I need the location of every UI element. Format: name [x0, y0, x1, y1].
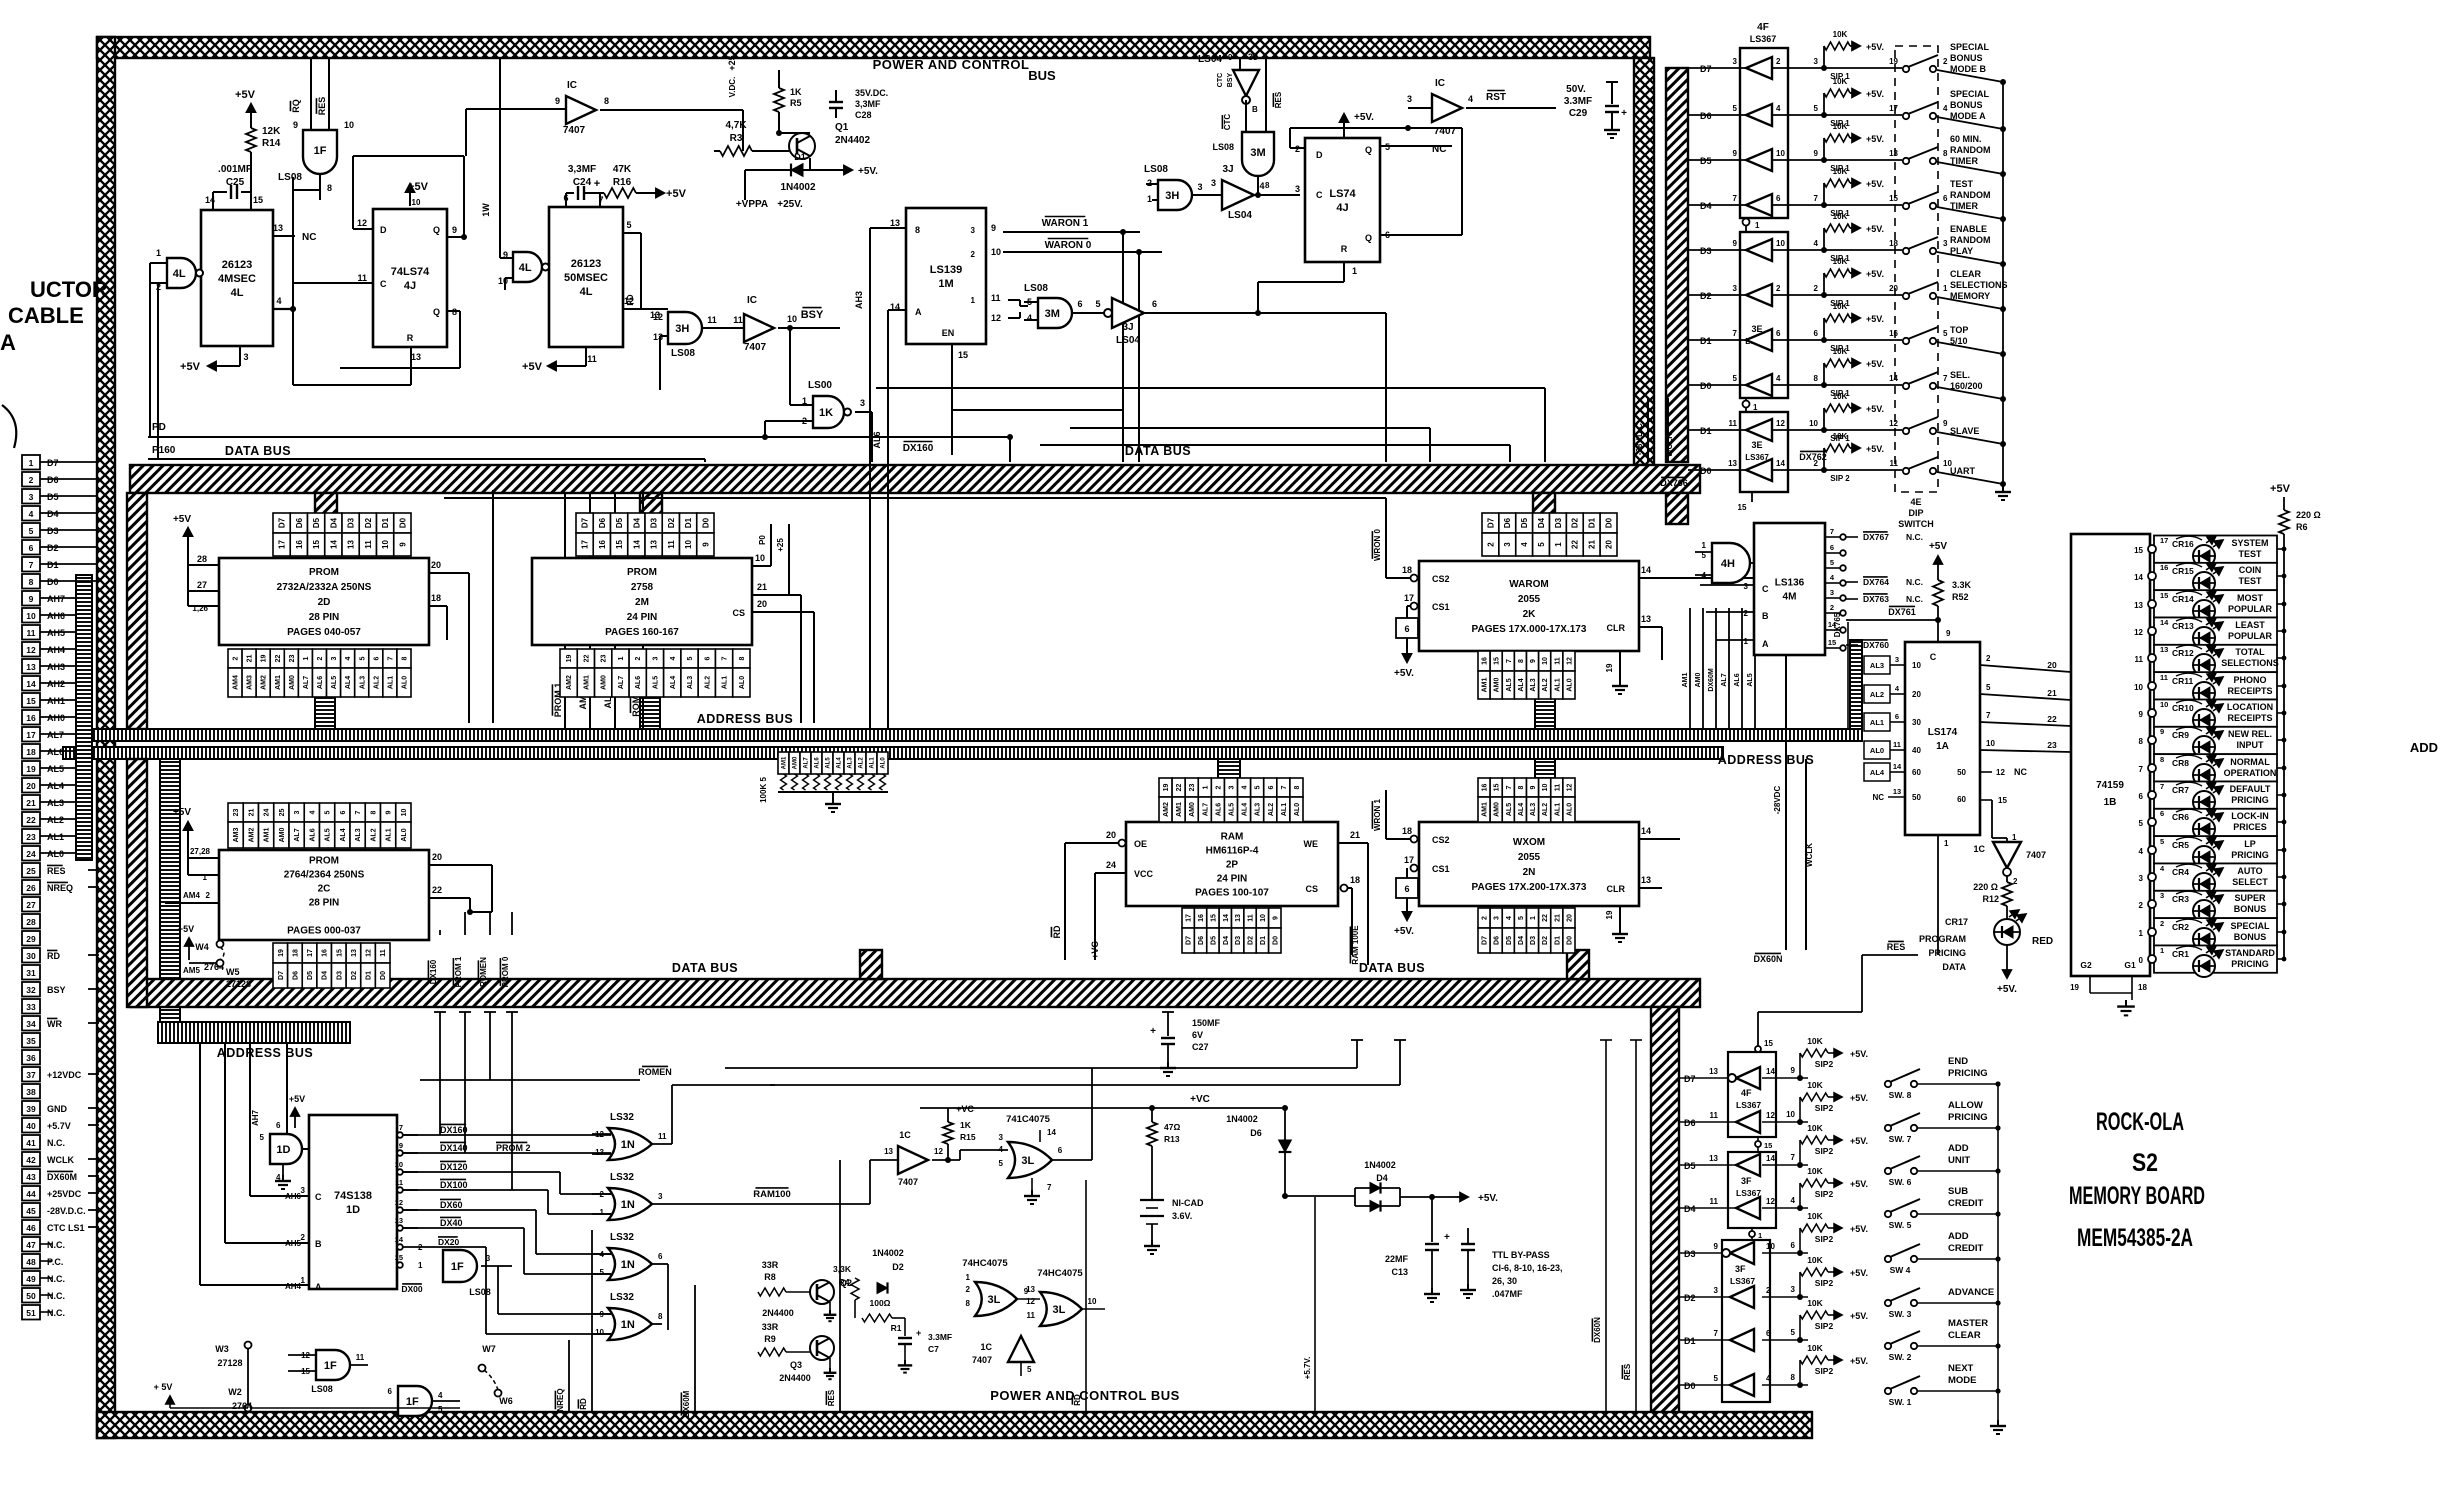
svg-text:4,7K: 4,7K: [725, 120, 747, 131]
svg-text:LS04: LS04: [1228, 210, 1252, 221]
svg-text:SYSTEM: SYSTEM: [2231, 538, 2268, 548]
svg-text:7: 7: [1047, 1183, 1052, 1192]
svg-text:11: 11: [1710, 1111, 1719, 1120]
svg-text:1W: 1W: [481, 203, 491, 217]
svg-text:RD: RD: [579, 1398, 588, 1410]
svg-text:DX767: DX767: [1863, 532, 1889, 542]
svg-text:CR15: CR15: [2172, 566, 2194, 576]
svg-text:SWITCH: SWITCH: [1898, 519, 1934, 529]
svg-text:PRICING: PRICING: [2231, 850, 2269, 860]
svg-text:7: 7: [2139, 765, 2144, 774]
svg-text:45: 45: [26, 1206, 36, 1216]
svg-text:13: 13: [2160, 645, 2168, 654]
svg-text:+25: +25: [727, 55, 737, 70]
svg-text:1: 1: [1702, 541, 1707, 550]
svg-text:9: 9: [1714, 1242, 1719, 1251]
svg-text:3: 3: [301, 1186, 306, 1195]
svg-text:12: 12: [1566, 784, 1573, 792]
svg-text:-28V.D.C.: -28V.D.C.: [47, 1206, 86, 1216]
svg-text:44: 44: [26, 1189, 36, 1199]
svg-text:74159: 74159: [2096, 780, 2124, 791]
svg-text:7407: 7407: [2026, 850, 2046, 860]
svg-text:TEST: TEST: [1950, 179, 1974, 189]
svg-text:+ 5V: + 5V: [154, 1382, 173, 1392]
svg-text:14: 14: [1641, 826, 1651, 836]
svg-text:UART: UART: [1950, 466, 1975, 476]
svg-text:1N: 1N: [621, 1199, 635, 1211]
svg-text:21: 21: [26, 798, 36, 808]
svg-text:8: 8: [915, 225, 920, 235]
svg-text:D4: D4: [47, 509, 59, 519]
svg-text:50: 50: [1912, 793, 1921, 802]
svg-text:RANDOM: RANDOM: [1950, 190, 1991, 200]
svg-text:3J: 3J: [1222, 164, 1233, 175]
svg-text:AH0: AH0: [47, 713, 65, 723]
svg-text:RAM: RAM: [1221, 832, 1244, 843]
svg-text:5: 5: [1986, 683, 1991, 692]
svg-text:D2: D2: [1571, 517, 1580, 528]
svg-text:18: 18: [292, 949, 299, 957]
svg-text:LS32: LS32: [610, 1112, 634, 1123]
svg-text:10K: 10K: [1807, 1255, 1823, 1265]
svg-text:CLEAR: CLEAR: [1948, 1330, 1981, 1341]
svg-text:D2: D2: [1248, 936, 1255, 945]
svg-text:BSY: BSY: [47, 985, 66, 995]
svg-text:DX60: DX60: [440, 1200, 463, 1210]
svg-text:V.DC.: V.DC.: [728, 77, 737, 98]
svg-text:WRON 0: WRON 0: [1373, 528, 1382, 561]
svg-text:19: 19: [2070, 983, 2079, 992]
svg-text:D2: D2: [1542, 936, 1549, 945]
svg-text:3F: 3F: [1735, 1264, 1746, 1274]
svg-text:3M: 3M: [1250, 147, 1265, 159]
svg-text:2758: 2758: [631, 582, 654, 593]
svg-text:2: 2: [1943, 57, 1948, 66]
svg-text:6: 6: [1943, 194, 1948, 203]
svg-text:48: 48: [26, 1257, 36, 1267]
svg-text:17: 17: [581, 540, 590, 549]
svg-text:100K 5: 100K 5: [759, 777, 768, 803]
svg-text:22: 22: [275, 655, 282, 663]
svg-text:3: 3: [29, 492, 34, 502]
svg-text:10K: 10K: [1807, 1123, 1823, 1133]
svg-text:46: 46: [26, 1223, 36, 1233]
svg-text:22: 22: [1571, 540, 1580, 549]
svg-text:WRON 1: WRON 1: [1373, 798, 1382, 831]
svg-text:3,3MF: 3,3MF: [855, 99, 881, 109]
svg-text:PRICING: PRICING: [1928, 948, 1966, 958]
svg-text:7: 7: [1814, 194, 1819, 203]
svg-text:AH3: AH3: [854, 291, 864, 309]
svg-text:DEFAULT: DEFAULT: [2230, 784, 2271, 794]
svg-text:1: 1: [1758, 1231, 1762, 1240]
svg-text:+5V.: +5V.: [1850, 1356, 1868, 1366]
svg-text:14: 14: [1889, 374, 1898, 383]
svg-text:SIP2: SIP2: [1815, 1189, 1834, 1199]
svg-text:SW. 5: SW. 5: [1889, 1220, 1912, 1230]
svg-text:16: 16: [1482, 657, 1489, 665]
svg-text:15: 15: [1210, 914, 1217, 922]
svg-text:3J: 3J: [1248, 52, 1258, 62]
svg-text:9: 9: [29, 594, 34, 604]
svg-text:1: 1: [1147, 194, 1152, 204]
svg-text:AM2: AM2: [1163, 802, 1170, 817]
svg-text:11: 11: [1729, 419, 1738, 428]
svg-text:3: 3: [860, 398, 865, 408]
svg-text:PROM: PROM: [627, 567, 657, 578]
svg-text:CLR: CLR: [1607, 884, 1626, 894]
svg-text:10: 10: [1088, 1297, 1097, 1306]
svg-text:4: 4: [1814, 239, 1819, 248]
svg-text:AH2: AH2: [47, 679, 65, 689]
svg-text:9: 9: [1228, 53, 1233, 62]
svg-text:8: 8: [1294, 785, 1301, 789]
svg-text:1: 1: [1352, 266, 1357, 276]
svg-text:AL0: AL0: [739, 676, 746, 689]
svg-text:D1: D1: [366, 971, 373, 980]
svg-text:13: 13: [884, 1147, 893, 1156]
svg-text:C: C: [380, 279, 387, 289]
svg-text:6: 6: [2139, 792, 2144, 801]
svg-text:29: 29: [26, 934, 36, 944]
svg-text:CTC LS1: CTC LS1: [47, 1223, 85, 1233]
svg-text:RED: RED: [2032, 936, 2053, 947]
svg-text:10: 10: [1542, 657, 1549, 665]
svg-text:BSY: BSY: [1227, 72, 1234, 87]
svg-text:74S138: 74S138: [334, 1190, 372, 1202]
svg-text:AL1: AL1: [1281, 803, 1288, 816]
svg-text:AL6: AL6: [47, 747, 64, 757]
svg-text:14: 14: [1047, 1128, 1056, 1137]
svg-text:AL4: AL4: [340, 828, 347, 841]
svg-text:LS08: LS08: [278, 172, 302, 183]
svg-text:14: 14: [395, 1235, 404, 1244]
svg-text:5: 5: [1537, 542, 1546, 547]
svg-text:D: D: [1316, 150, 1323, 160]
svg-text:3E: 3E: [1751, 440, 1762, 450]
svg-text:4: 4: [345, 656, 352, 660]
svg-text:7407: 7407: [1434, 126, 1457, 137]
svg-text:TOTAL: TOTAL: [2235, 647, 2265, 657]
svg-text:14: 14: [1893, 762, 1902, 771]
svg-text:AL4: AL4: [670, 676, 677, 689]
svg-text:42: 42: [26, 1155, 36, 1165]
svg-text:15: 15: [336, 949, 343, 957]
svg-text:A: A: [315, 1282, 322, 1292]
svg-text:3: 3: [1211, 178, 1216, 188]
svg-text:24: 24: [26, 849, 36, 859]
svg-text:4: 4: [1776, 104, 1781, 113]
svg-text:8: 8: [2139, 737, 2144, 746]
svg-text:10: 10: [401, 809, 408, 817]
svg-text:+5V.: +5V.: [1866, 444, 1884, 454]
svg-text:22: 22: [26, 815, 36, 825]
svg-text:10K: 10K: [1807, 1166, 1823, 1176]
svg-text:C: C: [1316, 190, 1323, 200]
svg-text:SELECT: SELECT: [2232, 877, 2268, 887]
svg-text:DX762: DX762: [1799, 452, 1827, 462]
svg-text:12: 12: [1776, 419, 1785, 428]
svg-text:D1: D1: [1700, 426, 1712, 436]
svg-text:LS08: LS08: [671, 348, 695, 359]
svg-text:1: 1: [1943, 284, 1948, 293]
svg-text:14: 14: [1766, 1154, 1775, 1163]
svg-text:NREQ: NREQ: [47, 883, 73, 893]
svg-text:LS04: LS04: [1116, 335, 1140, 346]
svg-text:6: 6: [1268, 785, 1275, 789]
svg-text:AL2: AL2: [47, 815, 64, 825]
svg-text:ENABLE: ENABLE: [1950, 224, 1987, 234]
svg-text:D1: D1: [1700, 336, 1712, 346]
svg-text:5: 5: [1943, 329, 1948, 338]
svg-text:AL4: AL4: [1518, 678, 1525, 691]
svg-text:1: 1: [2139, 929, 2144, 938]
svg-text:D3: D3: [1530, 936, 1537, 945]
svg-text:12: 12: [366, 949, 373, 957]
svg-text:2: 2: [971, 250, 976, 259]
svg-text:9: 9: [701, 542, 710, 547]
svg-text:D0: D0: [1700, 381, 1712, 391]
svg-text:GND: GND: [47, 1104, 68, 1114]
svg-text:11: 11: [991, 293, 1001, 303]
svg-text:RAM 100E: RAM 100E: [1351, 925, 1360, 965]
svg-text:CR2: CR2: [2172, 922, 2189, 932]
svg-text:AL6: AL6: [635, 676, 642, 689]
svg-text:AL6: AL6: [317, 676, 324, 689]
svg-text:R13: R13: [1164, 1134, 1180, 1144]
svg-text:MODE: MODE: [1948, 1375, 1977, 1386]
svg-text:SW. 2: SW. 2: [1889, 1352, 1912, 1362]
svg-text:CREDIT: CREDIT: [1948, 1198, 1984, 1209]
svg-text:10: 10: [395, 1160, 403, 1169]
svg-text:15: 15: [1494, 657, 1501, 665]
svg-text:NREQ: NREQ: [556, 1388, 565, 1411]
svg-text:+5V: +5V: [235, 89, 256, 101]
svg-text:8: 8: [739, 656, 746, 660]
svg-text:AM0: AM0: [279, 828, 286, 843]
svg-text:2: 2: [206, 891, 211, 900]
svg-text:AL6: AL6: [872, 431, 882, 448]
svg-text:BONUS: BONUS: [2234, 904, 2267, 914]
svg-text:12: 12: [395, 1198, 403, 1207]
svg-text:11: 11: [667, 540, 676, 549]
svg-text:D4: D4: [1518, 936, 1525, 945]
svg-text:15: 15: [1764, 1141, 1772, 1150]
svg-text:AM2: AM2: [248, 828, 255, 843]
svg-text:36: 36: [26, 1053, 36, 1063]
svg-text:74HC4075: 74HC4075: [962, 1258, 1008, 1269]
svg-text:1N4002: 1N4002: [780, 182, 815, 193]
svg-text:C29: C29: [1569, 108, 1588, 119]
svg-text:9: 9: [399, 1141, 403, 1150]
svg-text:8: 8: [1943, 149, 1948, 158]
svg-text:220 Ω: 220 Ω: [1973, 882, 1998, 892]
svg-text:TTL BY-PASS: TTL BY-PASS: [1492, 1250, 1550, 1260]
svg-text:7: 7: [1791, 1153, 1796, 1162]
svg-text:AL7: AL7: [618, 676, 625, 689]
svg-text:40: 40: [26, 1121, 36, 1131]
svg-text:NC: NC: [1872, 793, 1884, 802]
svg-text:14: 14: [1766, 1067, 1775, 1076]
svg-text:4: 4: [2139, 847, 2144, 856]
svg-text:9: 9: [555, 96, 560, 106]
svg-text:PRICING: PRICING: [2231, 795, 2269, 805]
svg-text:22MF: 22MF: [1385, 1254, 1409, 1264]
svg-text:BUS: BUS: [1028, 68, 1056, 83]
svg-text:6: 6: [1776, 329, 1781, 338]
svg-text:4: 4: [1506, 916, 1513, 920]
svg-text:12: 12: [1996, 768, 2005, 777]
svg-text:B: B: [315, 1239, 322, 1249]
svg-text:12: 12: [2134, 628, 2143, 637]
svg-text:2: 2: [1776, 57, 1781, 66]
svg-text:19: 19: [1605, 663, 1614, 672]
svg-text:13: 13: [347, 540, 356, 549]
svg-text:7: 7: [1733, 194, 1738, 203]
svg-text:D5: D5: [1684, 1161, 1696, 1171]
svg-text:COIN: COIN: [2239, 565, 2262, 575]
svg-text:8: 8: [370, 810, 377, 814]
svg-text:WE: WE: [1304, 839, 1319, 849]
svg-text:WR: WR: [47, 1019, 62, 1029]
svg-text:N.C.: N.C.: [1906, 577, 1923, 587]
svg-text:CS2: CS2: [1432, 574, 1450, 584]
svg-text:AH6: AH6: [47, 611, 65, 621]
svg-text:D2: D2: [1700, 291, 1712, 301]
svg-text:28 PIN: 28 PIN: [309, 898, 340, 909]
svg-text:LS32: LS32: [610, 1292, 634, 1303]
svg-text:+VPPA: +VPPA: [736, 199, 768, 210]
svg-text:12: 12: [1766, 1111, 1775, 1120]
svg-text:ADDRESS BUS: ADDRESS BUS: [697, 712, 794, 726]
svg-text:1: 1: [203, 873, 208, 882]
svg-text:SIP2: SIP2: [1815, 1059, 1834, 1069]
svg-text:5: 5: [999, 1159, 1004, 1168]
svg-text:10: 10: [2134, 683, 2143, 692]
svg-text:D7: D7: [278, 517, 287, 528]
svg-text:10K: 10K: [1807, 1211, 1823, 1221]
svg-text:LS32: LS32: [610, 1172, 634, 1183]
svg-text:18: 18: [1350, 875, 1360, 885]
svg-text:N.C.: N.C.: [47, 1291, 65, 1301]
svg-text:11: 11: [357, 273, 367, 283]
svg-text:R52: R52: [1952, 592, 1969, 602]
svg-text:2: 2: [1766, 1286, 1771, 1295]
svg-text:5: 5: [2139, 819, 2144, 828]
svg-text:LOCK-IN: LOCK-IN: [2231, 811, 2269, 821]
svg-text:PROM 0: PROM 0: [501, 956, 510, 987]
svg-text:10: 10: [1912, 661, 1921, 670]
svg-text:WAROM: WAROM: [1509, 579, 1548, 590]
svg-text:SW. 7: SW. 7: [1889, 1134, 1912, 1144]
svg-text:AL5: AL5: [653, 676, 660, 689]
svg-text:AL1: AL1: [1554, 803, 1561, 816]
svg-text:12: 12: [1766, 1197, 1775, 1206]
svg-text:3: 3: [2139, 874, 2144, 883]
svg-text:27128: 27128: [226, 979, 251, 989]
svg-text:CI-6, 8-10, 16-23,: CI-6, 8-10, 16-23,: [1492, 1263, 1563, 1273]
svg-text:AL3: AL3: [1530, 678, 1537, 691]
svg-text:DX761: DX761: [1888, 607, 1916, 617]
svg-text:P.C.: P.C.: [47, 1257, 63, 1267]
svg-text:10: 10: [1776, 149, 1785, 158]
svg-text:3: 3: [1229, 785, 1236, 789]
svg-text:DATA BUS: DATA BUS: [225, 444, 291, 458]
svg-text:9: 9: [1272, 916, 1279, 920]
svg-text:11: 11: [356, 1353, 365, 1362]
svg-text:C24: C24: [573, 177, 592, 188]
svg-text:23: 23: [1189, 784, 1196, 792]
svg-text:21: 21: [248, 809, 255, 817]
svg-text:B: B: [1762, 611, 1769, 621]
svg-text:+5V.: +5V.: [1394, 668, 1414, 679]
svg-text:4MSEC: 4MSEC: [218, 273, 256, 285]
svg-text:VCC: VCC: [1134, 869, 1154, 879]
svg-text:12: 12: [1566, 657, 1573, 665]
svg-text:S2: S2: [2132, 1149, 2158, 1177]
svg-text:AM0: AM0: [1695, 673, 1702, 688]
svg-text:ADD: ADD: [1948, 1231, 1969, 1242]
svg-text:10K: 10K: [1833, 302, 1848, 311]
svg-text:D0: D0: [1604, 517, 1613, 528]
svg-text:23: 23: [289, 655, 296, 663]
svg-text:+5V.: +5V.: [1866, 359, 1884, 369]
svg-text:MEMORY BOARD: MEMORY BOARD: [2069, 1182, 2205, 1210]
svg-text:AL1: AL1: [386, 828, 393, 841]
svg-text:AL3: AL3: [848, 757, 854, 769]
svg-text:D5: D5: [47, 492, 59, 502]
svg-text:+25: +25: [776, 538, 785, 552]
svg-text:3: 3: [1494, 916, 1501, 920]
svg-text:13: 13: [890, 218, 900, 228]
svg-text:D4: D4: [632, 517, 641, 528]
svg-text:17: 17: [26, 730, 36, 740]
svg-text:15: 15: [1889, 194, 1898, 203]
svg-text:POPULAR: POPULAR: [2228, 631, 2273, 641]
svg-text:N.C.: N.C.: [1906, 594, 1923, 604]
svg-text:DX60M: DX60M: [682, 1390, 691, 1417]
svg-text:PROM 2: PROM 2: [496, 1143, 531, 1153]
svg-text:10: 10: [381, 540, 390, 549]
svg-text:1N4002: 1N4002: [872, 1248, 904, 1258]
svg-text:AL3: AL3: [1255, 803, 1262, 816]
svg-text:TEST: TEST: [2238, 576, 2262, 586]
svg-text:4F: 4F: [1757, 22, 1769, 33]
svg-text:9: 9: [1733, 149, 1738, 158]
svg-text:RD: RD: [1052, 925, 1062, 938]
svg-text:7: 7: [1943, 374, 1948, 383]
svg-text:D0: D0: [380, 971, 387, 980]
svg-text:DX100: DX100: [440, 1180, 468, 1190]
svg-text:+5V.: +5V.: [1850, 1179, 1868, 1189]
svg-text:20: 20: [431, 560, 441, 570]
svg-text:2: 2: [966, 1285, 971, 1294]
svg-text:8: 8: [604, 96, 609, 106]
svg-text:+5V.: +5V.: [858, 166, 878, 177]
svg-text:CLEAR: CLEAR: [1950, 269, 1981, 279]
svg-text:5: 5: [359, 656, 366, 660]
svg-text:3: 3: [294, 810, 301, 814]
svg-text:N.C.: N.C.: [47, 1308, 65, 1318]
svg-text:DX40: DX40: [440, 1218, 463, 1228]
svg-text:8: 8: [966, 1299, 971, 1308]
svg-text:2: 2: [1744, 609, 1749, 618]
svg-text:6: 6: [1077, 299, 1082, 309]
svg-text:WARON 0: WARON 0: [1045, 240, 1092, 251]
svg-text:8: 8: [1791, 1373, 1796, 1382]
svg-text:6: 6: [1152, 299, 1157, 309]
svg-text:N.C.: N.C.: [47, 1138, 65, 1148]
